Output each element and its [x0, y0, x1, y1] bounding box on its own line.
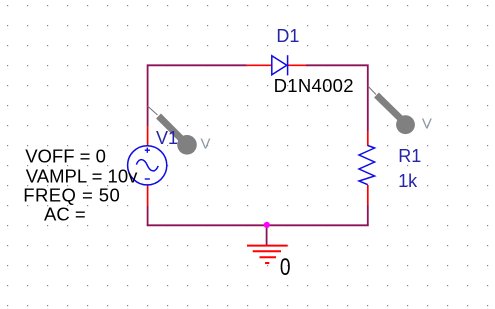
svg-text:AC =: AC =: [44, 204, 86, 225]
svg-text:FREQ = 50: FREQ = 50: [23, 184, 120, 205]
svg-text:VAMPL = 10v: VAMPL = 10v: [26, 165, 138, 186]
svg-text:V: V: [201, 135, 211, 152]
svg-text:D1N4002: D1N4002: [274, 75, 354, 96]
svg-text:D1: D1: [276, 26, 299, 46]
svg-text:V1: V1: [156, 128, 178, 148]
svg-text:0: 0: [280, 253, 291, 281]
svg-text:R1: R1: [398, 146, 421, 166]
svg-text:1k: 1k: [398, 171, 418, 191]
svg-text:VOFF = 0: VOFF = 0: [25, 146, 106, 167]
svg-text:V: V: [422, 115, 432, 132]
